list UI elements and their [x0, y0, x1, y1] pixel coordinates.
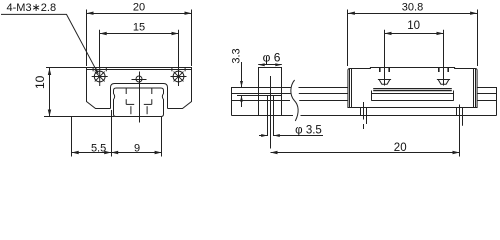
arrow left dim 9: [111, 151, 118, 154]
svg-text:15: 15: [133, 22, 145, 34]
arrow right phi6: [275, 63, 282, 66]
block step line at groove1 height: [371, 93, 453, 95]
block band line1: [373, 88, 452, 90]
phi3.5 hole left edge line: [267, 96, 269, 137]
svg-text:10: 10: [33, 75, 47, 89]
extension line left dim 10 side: [384, 30, 386, 67]
center grease hole circle: [136, 76, 142, 82]
carriage block outline front view: [87, 68, 192, 109]
block screw hole left side view: [379, 68, 381, 73]
extension line right dim 30.8: [477, 10, 479, 67]
rail top edge right of block: [477, 87, 496, 89]
arrow left dim 20 front: [87, 12, 94, 15]
leader line for 4-M3*2.8: [1, 14, 98, 73]
arrow left dim 15: [100, 32, 107, 35]
right seal plate line2: [475, 69, 477, 108]
svg-text:20: 20: [394, 142, 407, 154]
arrow right dim 9: [155, 151, 162, 154]
rail cross-section profile front view: [114, 88, 164, 117]
rail groove line1 right of block: [477, 93, 496, 95]
svg-text:5.5: 5.5: [91, 142, 106, 154]
arrow right dim 20 side: [453, 151, 460, 154]
counterbore bottom line: [259, 95, 282, 97]
svg-text:φ 6: φ 6: [263, 50, 281, 64]
rail hidden hole lines (right): [151, 88, 153, 94]
block inner cavity profile: [111, 84, 168, 109]
arrow right dim 5.5: [104, 151, 111, 154]
rail bottom edge right of break: [301, 115, 497, 117]
block top second edge line: [87, 69, 192, 71]
bottom dimension line 5.5 / 9: [72, 152, 162, 154]
rail hole2 centerline dash: [363, 124, 365, 129]
dimension line 15: [100, 33, 179, 35]
extension line bottom of dim 10 front: [44, 116, 115, 118]
block band line2: [373, 90, 452, 92]
M3 screw hole top-right: [173, 71, 184, 82]
carriage block outline side view: [348, 68, 477, 108]
arrow right dim 15: [172, 32, 179, 35]
rail hole2 hidden lines under block: [360, 108, 362, 116]
svg-text:9: 9: [134, 142, 140, 154]
arrow right dim 30.8: [470, 12, 477, 15]
arrow left phi6: [258, 63, 265, 66]
center circle horizontal centerline: [132, 79, 147, 81]
rail bottom edge left of break: [232, 115, 294, 117]
extension line right of dim 20 front: [191, 10, 193, 67]
rail left end edge: [231, 87, 233, 116]
rail groove line1 left of break: [232, 93, 291, 95]
extension line left of dim 15: [99, 30, 101, 67]
extension line left dim 30.8: [347, 10, 349, 67]
dimension line 30.8: [348, 13, 477, 15]
svg-text:φ 3.5: φ 3.5: [295, 125, 322, 137]
dimension line 20 side: [271, 152, 460, 154]
svg-text:4-M3∗2.8: 4-M3∗2.8: [7, 2, 57, 14]
extension line dim 3.3 at counterbore bottom: [237, 95, 259, 97]
arrow pointing right phi3.5: [261, 134, 267, 137]
extension line left of dim 20 front: [86, 10, 88, 67]
rail groove line2 left of break: [232, 100, 291, 102]
arrow up dim 3.3: [240, 96, 243, 102]
rail groove line2 break to block: [299, 100, 348, 102]
arrow down dim 3.3: [240, 81, 243, 87]
arrow left dim 5.5: [72, 151, 79, 154]
arrow up dim 10 front: [48, 68, 51, 75]
extension line dim 9 right: [161, 117, 163, 157]
rail right end edge: [496, 87, 498, 116]
rail hole1 centerline: [270, 76, 272, 149]
dimension line 3.3 upper segment: [241, 62, 243, 87]
rail groove line1 break to block: [299, 93, 348, 95]
extension line right of dim 15: [178, 30, 180, 67]
band step right vertical: [453, 91, 455, 101]
dimension line 3.3 lower segment: [241, 96, 243, 108]
arrow right dim 10 side: [437, 32, 444, 35]
block step line at groove2 height: [371, 100, 453, 102]
rail hole2 centerline: [363, 102, 365, 120]
svg-text:30.8: 30.8: [402, 2, 423, 14]
extension line right dim 10 side: [443, 30, 445, 67]
rail hidden hole lines (left): [125, 88, 127, 94]
rail break S-curve: [291, 80, 298, 121]
extension line top of dim 10 front: [46, 67, 88, 69]
arrow pointing left phi3.5: [274, 134, 280, 137]
M3 screw hole top-left: [94, 71, 105, 82]
svg-text:20: 20: [133, 2, 145, 14]
dimension line phi3.5 right segment: [274, 135, 323, 137]
dimension line phi6: [258, 64, 282, 66]
svg-text:10: 10: [407, 20, 420, 32]
arrow left dim 20 side: [271, 151, 278, 154]
counterbore hole outline tower: [259, 68, 282, 116]
left seal plate line2: [351, 69, 353, 108]
arrow right dim 20 front: [185, 12, 192, 15]
dimension line 10 front: [49, 67, 51, 116]
arrow left dim 30.8: [348, 12, 355, 15]
band step left vertical: [371, 91, 373, 101]
arrow down dim 10 front: [48, 110, 51, 117]
leader arrowhead: [94, 68, 98, 74]
rail hole3 hidden lines under block: [456, 108, 458, 116]
arrow left dim 10 side: [385, 32, 392, 35]
extension line between dims 5.5 and 9: [111, 110, 113, 157]
extension line dim 5.5 left: [71, 117, 73, 157]
rail top edge break to block: [299, 87, 348, 89]
right seal plate line1: [473, 69, 475, 108]
rail vertical centerline front: [139, 72, 141, 123]
dimension line phi3.5 left segment: [259, 135, 267, 137]
dimension line 10 side: [385, 33, 444, 35]
rail groove line2 right of block: [477, 100, 496, 102]
phi3.5 hole right edge line: [273, 96, 275, 137]
rail top edge left of break: [232, 87, 292, 89]
block screw hole right side view: [438, 68, 440, 73]
svg-text:3.3: 3.3: [230, 48, 242, 63]
left seal plate line1: [349, 69, 351, 108]
rail hole3 centerline / extension for dim 20: [459, 105, 461, 157]
dimension line 20 front: [87, 13, 192, 15]
